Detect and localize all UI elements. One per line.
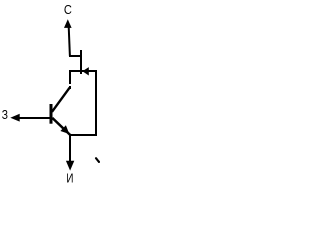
svg-text:З: З [2,109,8,122]
svg-text:C: C [64,2,72,17]
wire: top bus horizontal [69,70,97,72]
transistor VT1 collector diagonal [52,88,70,112]
wire: C lead vertical [69,27,70,57]
terminal arrow З (points left) [10,114,19,122]
transistor VT1 emitter diagonal [52,118,70,135]
terminal arrow C (points up) [64,19,72,28]
wire: right vertical [95,70,97,136]
transistor VT1 base bar [50,104,53,124]
diode VD1 (triangle pointing left, tip on cathode wire) [82,67,88,75]
wire: left bus vertical (upper part, above gap) [69,70,71,84]
svg-text:И: И [66,172,73,184]
wire: left bus vertical (stub below gap) [69,86,71,89]
wire: И lead vertical [69,134,71,161]
transistor VT1 emitter arrowhead [60,125,69,134]
terminal arrow И (points down) [66,161,74,171]
stray mark (cropped character fragment at right edge) [96,158,99,162]
stray mark blob [98,161,100,163]
wire: vertical down to diode cathode [80,50,82,74]
wire: base lead horizontal [19,117,50,119]
wire: bottom bus horizontal [69,134,97,136]
wire: jog horizontal [69,55,82,57]
